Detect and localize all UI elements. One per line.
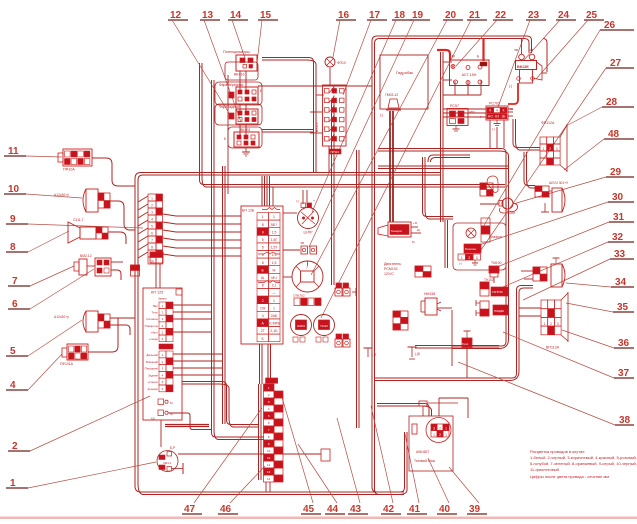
svg-text:ВК416: ВК416: [234, 73, 245, 77]
node callout 30: [467, 192, 634, 249]
wire switch block stubs: [310, 95, 324, 133]
node callout 48: [564, 129, 634, 170]
svg-text:2АБ: 2АБ: [271, 314, 278, 318]
connector pair right upper: [335, 283, 356, 296]
relay K3 VK403: [224, 127, 262, 148]
svg-text:12: 12: [267, 463, 271, 467]
wire vertical 222: [223, 166, 226, 424]
gauge pair fuel temp: [291, 315, 335, 343]
svg-text:Дальний: Дальний: [146, 353, 158, 357]
starter NM158: [421, 292, 441, 315]
svg-text:ВУ300: ВУ300: [315, 122, 319, 132]
svg-text:БП 12Б: БП 12Б: [242, 209, 255, 213]
wire loop potentiometer: [225, 62, 258, 80]
svg-text:Тяговый блок: Тяговый блок: [414, 459, 436, 463]
svg-text:2,1Б: 2,1Б: [270, 329, 278, 333]
svg-text:КП 125: КП 125: [151, 291, 163, 295]
svg-text:СМ: СМ: [260, 306, 265, 310]
node callout 8: [6, 231, 69, 253]
svg-text:10: 10: [267, 449, 271, 453]
node callout 32: [503, 232, 634, 287]
connector pair mid: [300, 241, 317, 254]
svg-text:Замки: Замки: [158, 297, 167, 301]
svg-text:Задние: Задние: [148, 373, 158, 377]
traction plug: [419, 401, 458, 416]
node callout 1: [6, 462, 156, 489]
svg-text:2Г: 2Г: [261, 329, 265, 333]
wire rs57 stub: [468, 112, 477, 114]
fuse panel BP125: [241, 206, 283, 344]
relay heater upper: [480, 278, 508, 296]
wire ast bottom merge: [443, 80, 481, 95]
svg-text:3: 3: [556, 147, 558, 151]
relay potentiometer VK416: [223, 50, 257, 77]
node callout 21: [321, 10, 487, 318]
wire rs702 stubs: [508, 109, 513, 116]
connector near horn: [480, 176, 498, 196]
motor VM12: [74, 254, 111, 276]
svg-text:Б: Б: [260, 89, 262, 93]
svg-text:(-): (-): [380, 113, 383, 117]
svg-text:2: 2: [549, 147, 551, 151]
node callout 4: [6, 354, 62, 391]
connector strip lower: [264, 378, 284, 482]
node callout 29: [513, 167, 634, 204]
svg-text:(-): (-): [492, 127, 495, 131]
svg-text:1: 1: [445, 433, 447, 437]
svg-text:НЗ: НЗ: [495, 115, 499, 119]
svg-text:Ближний: Ближний: [146, 360, 158, 364]
svg-text:1-Я: 1-Я: [371, 353, 377, 357]
node callout 24: [524, 10, 576, 60]
svg-text:1-белый, 2-черный, 3-коричневы: 1-белый, 2-черный, 3-коричневый, 4-красн…: [530, 455, 637, 460]
svg-text:ФП112А: ФП112А: [541, 121, 555, 125]
wire fan strip-left: [163, 214, 241, 256]
svg-text:6-голубой, 7-зеленый, 8-оранже: 6-голубой, 7-зеленый, 8-оранжевый, 9-сер…: [530, 461, 637, 466]
ground relay cluster: [242, 148, 250, 156]
svg-text:А12х30+у: А12х30+у: [54, 193, 69, 197]
svg-text:+генер: +генер: [149, 337, 158, 341]
svg-text:Ш-ПР: Ш-ПР: [304, 231, 314, 235]
svg-text:1: 1: [262, 215, 264, 219]
node callout 23: [498, 10, 546, 107]
node callout 18: [312, 10, 412, 212]
connector on left bus: [131, 265, 140, 276]
svg-text:(-): (-): [509, 84, 512, 88]
tank Gidrobak: [380, 55, 428, 117]
svg-text:Цифры после цвета провода - се: Цифры после цвета провода - сечение мм: [530, 474, 609, 479]
svg-text:3Б: 3Б: [502, 115, 506, 119]
svg-text:1,5Т: 1,5Т: [270, 246, 278, 250]
legend text: [530, 449, 637, 479]
node callout 16: [333, 10, 356, 57]
node callout 7: [8, 266, 74, 287]
traction unit: [409, 416, 453, 471]
wire heater stem: [466, 347, 468, 378]
svg-text:НСМРВ: НСМРВ: [268, 322, 281, 326]
svg-text:9: 9: [262, 230, 264, 234]
svg-text:+: +: [313, 199, 315, 203]
node callout 9: [6, 214, 143, 228]
svg-text:ВК403: ВК403: [240, 128, 250, 132]
wire strip2 hug: [259, 384, 262, 480]
node callout 5: [6, 320, 82, 357]
wire rs702 left links: [443, 109, 486, 117]
svg-text:3: 3: [557, 322, 559, 326]
svg-text:4: 4: [151, 217, 153, 221]
wire vk12e drop: [542, 39, 547, 74]
svg-text:1: 1: [433, 433, 435, 437]
svg-text:ПЖД30: ПЖД30: [494, 309, 504, 313]
svg-text:2: 2: [550, 322, 552, 326]
node callout 36: [562, 330, 634, 349]
wire horn tail: [108, 232, 126, 244]
svg-text:13: 13: [267, 470, 271, 474]
svg-text:ФП10: ФП10: [337, 61, 346, 65]
node callout 45: [281, 394, 321, 515]
svg-text:4: 4: [496, 109, 498, 113]
svg-text:+батт: +батт: [151, 330, 159, 334]
svg-text:УК143: УК143: [320, 324, 328, 328]
wire engine box bottom: [415, 346, 499, 349]
wire rear lamp feeds: [521, 271, 533, 279]
wire strip bottom feeds: [260, 344, 271, 384]
svg-text:Розетка: Розетка: [465, 247, 476, 251]
svg-text:ГМ03-12: ГМ03-12: [385, 93, 398, 97]
node callout 13: [200, 10, 241, 122]
dome light box: [453, 218, 506, 270]
svg-text:1,5Г: 1,5Г: [271, 238, 278, 242]
node callout 40: [428, 458, 457, 515]
wire kp125 bottom drop: [160, 420, 162, 447]
svg-text:14: 14: [267, 477, 271, 481]
sensor TM100: [489, 261, 502, 277]
node callout 44: [298, 444, 345, 515]
node callout 20: [311, 10, 463, 275]
node callout 22: [456, 10, 513, 66]
ground engine right: [408, 347, 421, 359]
label engine: [384, 262, 401, 276]
node callout 37: [503, 332, 634, 379]
svg-text:У2ПР20: У2ПР20: [492, 290, 503, 294]
svg-text:НО: НО: [488, 115, 493, 119]
svg-text:(-): (-): [459, 262, 462, 266]
node callout 38: [458, 362, 634, 426]
wire relay4 branch: [262, 130, 314, 133]
node callout 33: [523, 249, 634, 300]
wire vertical 199 with corner: [200, 63, 506, 187]
headlamp A12 lower: [54, 311, 110, 332]
wire sensor to generator thick: [390, 111, 393, 222]
svg-text:8: 8: [262, 284, 264, 288]
svg-text:Вкл: Вкл: [153, 304, 158, 308]
wire to traction unit: [377, 404, 432, 417]
svg-text:ЧВ: ЧВ: [514, 48, 518, 52]
wire engine corner pair: [428, 155, 470, 162]
svg-text:А: А: [333, 123, 335, 127]
connector ST230: [415, 266, 431, 277]
node callout 31: [497, 212, 634, 267]
svg-text:ЧВ: ЧВ: [509, 107, 513, 111]
scan edge band: [0, 517, 637, 520]
svg-text:1,5: 1,5: [272, 230, 277, 234]
svg-text:1ПВ 302: 1ПВ 302: [293, 294, 305, 298]
wire conn4 tail: [88, 318, 118, 352]
svg-text:1: 1: [151, 196, 153, 200]
wire strip to kp125: [156, 264, 160, 288]
svg-text:Плафон: Плафон: [489, 235, 502, 239]
node callout 19: [309, 10, 430, 247]
svg-text:Б-Р: Б-Р: [170, 446, 175, 450]
wire dome feed pair: [423, 157, 454, 219]
svg-text:А: А: [333, 104, 335, 108]
svg-text:А: А: [333, 85, 335, 89]
node callout 35: [566, 302, 634, 313]
svg-text:М: М: [452, 55, 455, 59]
headlamp ShU24: [535, 181, 569, 212]
wire starter link: [437, 307, 452, 309]
svg-text:12У/С: 12У/С: [384, 272, 394, 276]
svg-text:Потенциометры: Потенциометры: [223, 50, 250, 54]
relay K2 rear lamp: [215, 104, 262, 125]
svg-text:РСМ101: РСМ101: [384, 267, 398, 271]
svg-text:5: 5: [262, 238, 264, 242]
wire main left bus: [135, 173, 440, 495]
svg-text:К: К: [489, 109, 491, 113]
svg-text:11: 11: [267, 456, 270, 460]
svg-text:(-)Б: (-)Б: [415, 352, 420, 356]
wire strip2 bottom drops: [266, 482, 270, 492]
svg-text:ЧВ: ЧВ: [300, 241, 304, 245]
svg-text:?: ?: [306, 266, 308, 270]
horn signal: [480, 198, 518, 213]
horn S311: [68, 218, 108, 243]
svg-text:5: 5: [151, 224, 153, 228]
wire ast left stubs: [443, 62, 452, 80]
svg-text:2: 2: [439, 433, 441, 437]
wire fan bus-left: [138, 196, 148, 258]
lamp FP16: [325, 57, 346, 67]
svg-text:ПР310: ПР310: [331, 150, 340, 154]
wire engine bus mid: [378, 166, 508, 169]
node callout 10: [4, 184, 82, 198]
svg-text:Расцветка проводов в жгутах:: Расцветка проводов в жгутах:: [530, 449, 585, 454]
wire strip top feeds: [262, 176, 273, 206]
node callout 43: [337, 418, 368, 515]
svg-text:2,1: 2,1: [272, 284, 277, 288]
wire starter drop: [451, 310, 453, 366]
wire kp125 to strip2: [182, 382, 258, 428]
node callout 6: [8, 269, 94, 310]
svg-text:ТН102: ТН102: [484, 278, 494, 282]
wire conn11 tail: [92, 158, 135, 186]
node callout 34: [566, 277, 634, 288]
svg-text:А: А: [333, 94, 335, 98]
node callout 25: [536, 10, 604, 79]
svg-text:2: 2: [439, 427, 441, 431]
svg-text:ПФ10А: ПФ10А: [63, 168, 75, 172]
svg-text:1: 1: [461, 256, 463, 260]
wire thick stub: [165, 425, 209, 427]
wire dome light left: [445, 220, 448, 268]
wire rs702 drops: [490, 120, 504, 148]
generator regulator: [378, 221, 421, 244]
node callout 28: [566, 97, 634, 126]
battery AM: [157, 446, 183, 474]
svg-text:5Б?: 5Б?: [271, 223, 277, 227]
svg-text:8: 8: [262, 223, 264, 227]
svg-text:2: 2: [151, 203, 153, 207]
svg-text:РС702: РС702: [489, 102, 500, 106]
svg-text:3: 3: [476, 256, 478, 260]
relay RS702: [480, 102, 513, 132]
wire relay cluster east run: [258, 85, 372, 87]
wire cluster internals: [240, 71, 246, 135]
node callout 27: [481, 58, 634, 250]
rear lamp unit: [533, 258, 565, 287]
connector row cluster: [293, 294, 321, 306]
svg-text:1: 1: [445, 427, 447, 431]
ground engine left: [364, 348, 377, 357]
svg-text:3: 3: [151, 210, 153, 214]
svg-text:РС57: РС57: [450, 104, 459, 108]
svg-text:1: 1: [542, 147, 544, 151]
svg-text:Фара задняя: Фара задняя: [219, 105, 239, 109]
wire vertical 356: [357, 150, 360, 428]
switch VK12E: [508, 38, 542, 104]
svg-text:ВП112А: ВП112А: [546, 346, 560, 350]
wire fuse block stub: [328, 146, 330, 172]
wire headlight feed: [524, 152, 535, 188]
wire vertical 331: [332, 100, 335, 285]
connector VP112A: [541, 292, 568, 350]
svg-text:Ш: Ш: [417, 228, 420, 232]
svg-text:А: А: [333, 113, 335, 117]
svg-text:11-фиолетовый.: 11-фиолетовый.: [530, 467, 560, 472]
svg-text:Генерат: Генерат: [391, 229, 403, 233]
svg-text:Передние: Передние: [145, 367, 159, 371]
node callout 17: [343, 10, 387, 95]
node callout 47: [182, 408, 262, 515]
svg-text:Б: Б: [224, 137, 226, 141]
svg-text:А: А: [333, 133, 335, 137]
svg-text:+Я: +Я: [413, 221, 417, 225]
wire lamp10 tail: [110, 201, 135, 230]
svg-text:Повороты: Повороты: [145, 324, 158, 328]
svg-text:3: 3: [433, 427, 435, 431]
svg-text:ЧВ3: ЧВ3: [469, 110, 475, 114]
svg-text:1,5: 1,5: [272, 261, 277, 265]
wire lamp5 tails: [110, 318, 135, 335]
svg-text:М: М: [273, 268, 276, 272]
gauge unit AST-15N: [437, 38, 489, 86]
connector engine block: [393, 311, 408, 330]
node callout 2: [8, 396, 150, 452]
gauge ShP: [296, 199, 319, 235]
wire tm100 stem: [493, 277, 495, 283]
wire kp125 lower branch: [169, 413, 212, 430]
svg-text:АМ301: АМ301: [297, 324, 306, 328]
svg-text:ВК12Е: ВК12Е: [517, 65, 529, 69]
wire gauge feeds: [283, 190, 307, 277]
svg-text:1: 1: [273, 306, 275, 310]
svg-text:АКБ4827: АКБ4827: [416, 450, 429, 454]
wire fuse link loop: [513, 119, 540, 150]
svg-text:Двигатель: Двигатель: [384, 262, 401, 266]
speedometer: [292, 261, 323, 292]
switch block VU300: [315, 85, 346, 155]
svg-text:МЧ: МЧ: [271, 276, 277, 280]
wire traction feeds: [439, 398, 468, 418]
svg-text:АМ4-1: АМ4-1: [163, 461, 172, 465]
connector PF10A: [58, 149, 92, 172]
svg-text:ТМ100: ТМ100: [491, 261, 502, 265]
svg-text:ЧВ: ЧВ: [529, 48, 533, 52]
svg-text:7: 7: [151, 238, 153, 242]
svg-text:5: 5: [262, 246, 264, 250]
svg-text:1: 1: [543, 322, 545, 326]
svg-text:Тепл: Тепл: [462, 342, 469, 346]
node callout 26: [483, 20, 634, 227]
wire potentiometer drop: [227, 75, 229, 194]
svg-text:1: 1: [273, 215, 275, 219]
svg-text:—: —: [272, 291, 276, 295]
node callout 12: [168, 10, 232, 118]
connector pair right lower: [335, 334, 350, 347]
svg-text:2: 2: [468, 256, 470, 260]
node callout 39: [449, 467, 487, 515]
node callout 46: [218, 466, 265, 515]
wire bus pair 404 rising: [398, 432, 407, 495]
svg-text:ШУ24 301+У: ШУ24 301+У: [549, 181, 569, 185]
svg-text:1: 1: [273, 299, 275, 303]
svg-text:А12х30+у: А12х30+у: [54, 315, 69, 319]
svg-text:2: 2: [262, 299, 264, 303]
junction block KP125: [143, 288, 182, 421]
svg-text:Тепл: Тепл: [152, 311, 159, 315]
wire pair to lower strip: [212, 80, 265, 440]
node callout 41: [405, 434, 427, 515]
node callout 15: [257, 10, 278, 63]
svg-text:НМ158: НМ158: [424, 292, 435, 296]
svg-text:КЗ: КЗ: [151, 417, 155, 421]
relay K1 front lamp: [215, 82, 262, 105]
svg-text:4: 4: [262, 314, 264, 318]
svg-text:фонари: фонари: [148, 387, 159, 391]
wire battery run: [178, 453, 321, 455]
wire center harness loop: [372, 36, 532, 495]
svg-text:Гидробак: Гидробак: [396, 70, 413, 75]
svg-text:8: 8: [262, 261, 264, 265]
node callout 42: [371, 406, 401, 515]
terminal strip left: [148, 194, 163, 264]
svg-text:Сигналы: Сигналы: [146, 317, 158, 321]
connector PF101A: [60, 344, 88, 366]
svg-text:6: 6: [151, 231, 153, 235]
wire relay cluster to bus: [262, 58, 316, 173]
wire flare2 stubs: [519, 308, 541, 316]
node callout 14: [228, 10, 248, 58]
svg-text:Фара передняя: Фара передняя: [219, 83, 243, 87]
node callout 11: [4, 146, 62, 157]
headlamp A12 upper: [54, 189, 110, 212]
wire vertical 440: [441, 52, 444, 222]
relay heater lower: [476, 300, 508, 316]
svg-text:8: 8: [151, 245, 153, 249]
svg-text:(-): (-): [296, 199, 299, 203]
svg-text:+стекло: +стекло: [147, 380, 158, 384]
connector battery end: [321, 449, 330, 461]
